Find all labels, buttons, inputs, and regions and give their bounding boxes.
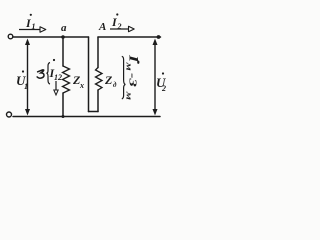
voltage arrow U1 line bbox=[27, 41, 29, 111]
node a junction dot bbox=[61, 35, 65, 39]
svg-text:A: A bbox=[98, 21, 106, 33]
svg-text:Z: Z bbox=[104, 73, 113, 87]
symbol з (winding mark) bbox=[37, 70, 44, 78]
resistor Z_d zigzag bbox=[96, 68, 103, 91]
resistor Z_x zigzag bbox=[63, 66, 70, 93]
wire hairpin bottom bbox=[89, 111, 99, 113]
voltage arrow U1 head down bbox=[25, 109, 30, 116]
current I2 arrow line bbox=[110, 28, 128, 30]
voltage arrow U1 head up bbox=[25, 39, 30, 46]
svg-text:a: a bbox=[61, 22, 67, 34]
svg-text:д: д bbox=[113, 81, 117, 89]
wire top-left horizontal bbox=[13, 36, 89, 38]
svg-text:-З: -З bbox=[126, 73, 138, 87]
svg-text:2: 2 bbox=[117, 22, 122, 31]
current I1 open arrowhead bbox=[40, 27, 46, 32]
voltage arrow U2 head down bbox=[153, 109, 158, 116]
brace left of I12 bbox=[47, 63, 51, 85]
wire bottom horizontal bbox=[13, 116, 160, 118]
wire hairpin right leg upper bbox=[97, 37, 99, 68]
wire hairpin right leg lower bbox=[97, 90, 99, 112]
node a branch wire lower bbox=[62, 93, 64, 117]
svg-text:x: x bbox=[79, 81, 84, 90]
wire top-right horizontal bbox=[98, 36, 161, 38]
current I12 arrow line bbox=[55, 81, 57, 90]
svg-text:м: м bbox=[124, 91, 133, 100]
brace right of Zd branch bbox=[122, 56, 126, 99]
svg-text:2: 2 bbox=[161, 84, 166, 93]
voltage arrow U2 head up bbox=[153, 39, 158, 46]
svg-text:12: 12 bbox=[54, 73, 62, 82]
svg-text:1: 1 bbox=[24, 82, 28, 91]
svg-text:м: м bbox=[124, 61, 133, 70]
junction dot bottom of Zx branch bbox=[62, 115, 65, 118]
current I2 open arrowhead bbox=[129, 26, 135, 31]
terminal bottom-left bbox=[7, 112, 12, 117]
label Im-Zm rotated bbox=[124, 54, 139, 100]
terminal top-left bbox=[8, 34, 13, 39]
voltage arrow U2 line bbox=[154, 41, 156, 111]
node dot top right end bbox=[157, 35, 161, 39]
current I12 open arrowhead bbox=[54, 90, 58, 95]
current I1 arrow line bbox=[19, 29, 40, 31]
wire middle hairpin left leg bbox=[88, 37, 90, 112]
svg-text:1: 1 bbox=[32, 22, 36, 31]
node a branch wire upper bbox=[62, 37, 64, 66]
